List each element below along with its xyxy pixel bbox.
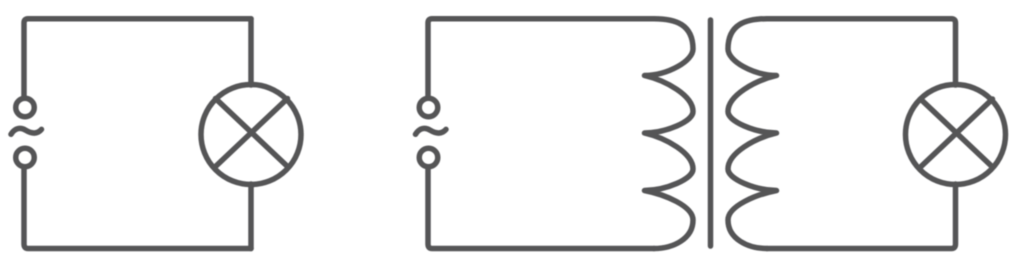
- lamp (left circuit): cross diagonal 1: [216, 99, 288, 167]
- wire: right circuit left side below source to bottom, to primary winding: [428, 167, 654, 249]
- lamp (left circuit): cross diagonal 2: [216, 99, 288, 167]
- transformer primary winding: [645, 19, 694, 249]
- wire: right circuit top from secondary to lamp: [767, 19, 956, 85]
- transformer core: [708, 20, 714, 246]
- transformer secondary winding: [728, 19, 777, 249]
- ac source terminal (left circuit, upper circle): [16, 98, 35, 117]
- ac waveform symbol (tilde, right circuit): [416, 128, 447, 134]
- lamp (right circuit): cross diagonal 2: [921, 99, 993, 167]
- ac source terminal (right circuit, lower circle): [419, 148, 438, 167]
- ac waveform symbol (tilde, left circuit): [11, 128, 42, 134]
- wire: right circuit bottom from secondary to lamp: [767, 184, 956, 249]
- lamp (left circuit): circle: [201, 85, 301, 185]
- lamp (right circuit): circle: [906, 85, 1006, 185]
- wire: left circuit left side below source down to bottom: [24, 167, 251, 249]
- wire: left circuit top + left side down to source terminal: [24, 19, 251, 98]
- ac source terminal (left circuit, lower circle): [16, 148, 35, 167]
- wire: left circuit bottom-right up to lamp: [248, 184, 254, 249]
- ac source terminal (right circuit, upper circle): [419, 98, 438, 117]
- wire: left circuit top-right down to lamp: [248, 19, 254, 85]
- lamp (right circuit): cross diagonal 1: [921, 99, 993, 167]
- wire: right circuit top from source to primary winding: [428, 19, 654, 98]
